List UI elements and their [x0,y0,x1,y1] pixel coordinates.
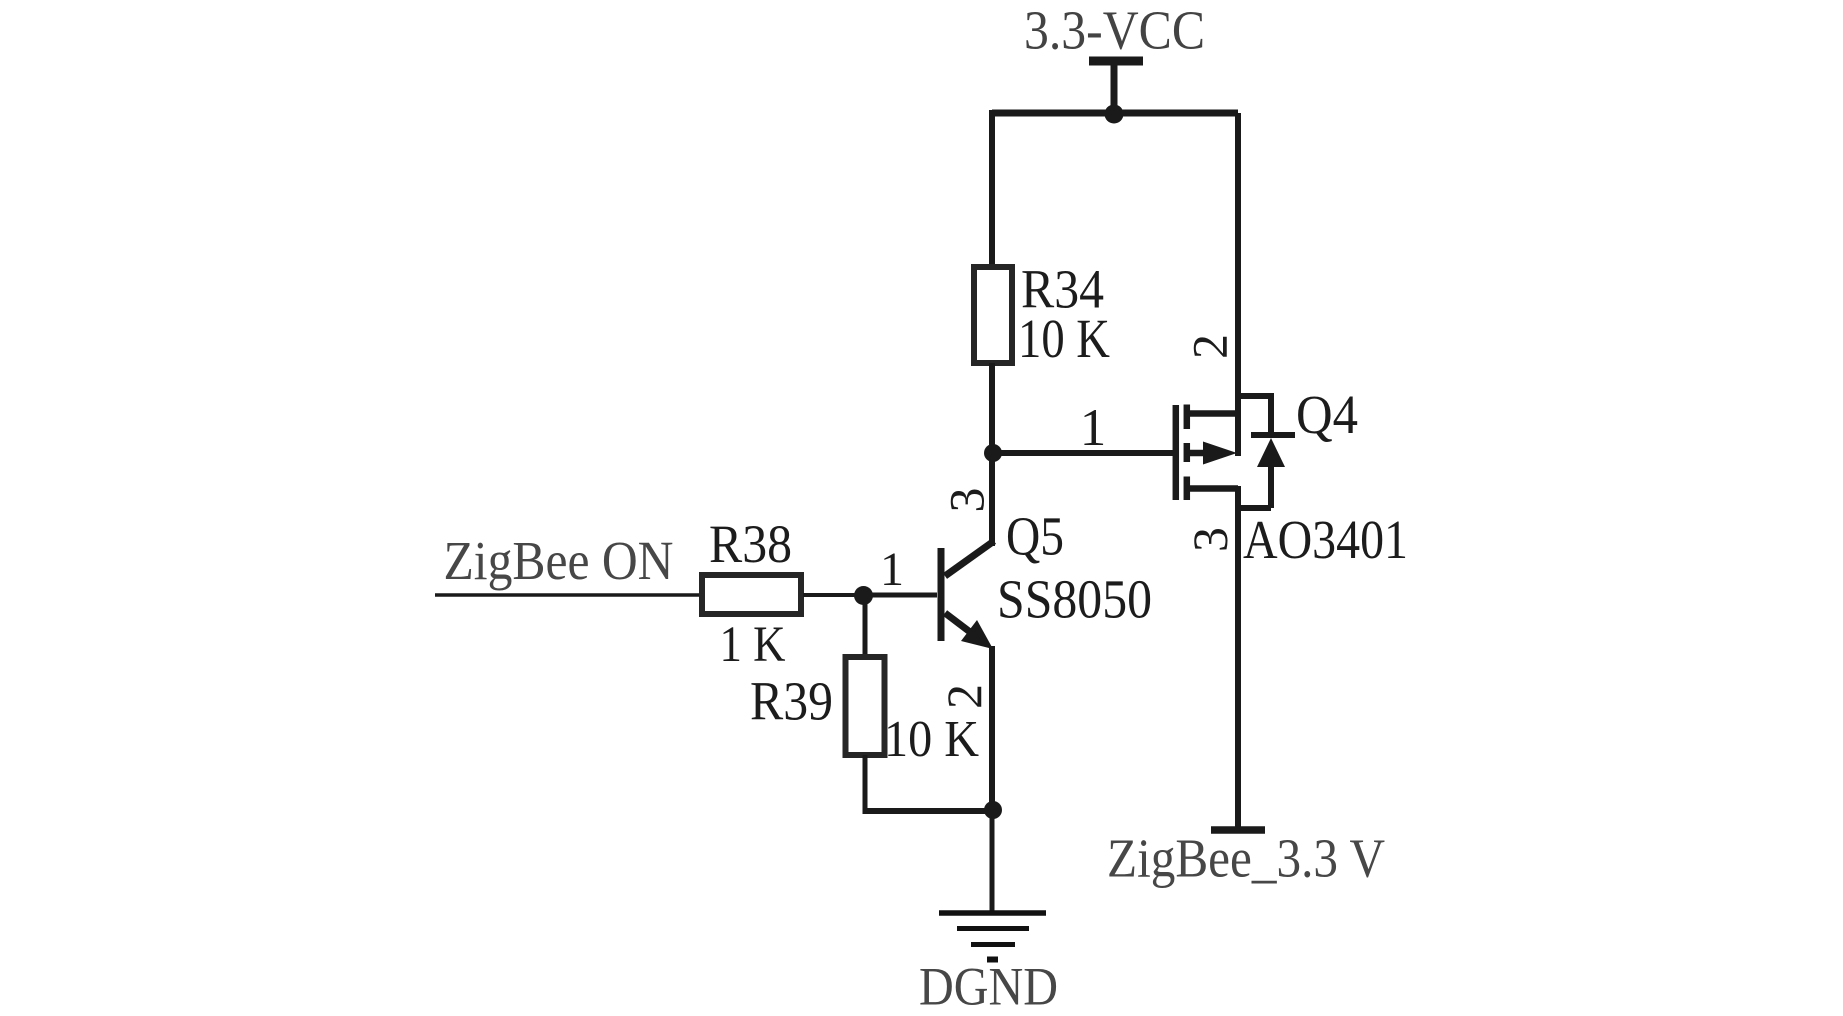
wire base node to Q5 base [862,593,937,598]
svg-text:3.3-VCC: 3.3-VCC [1024,0,1205,61]
wire Q5 collector vertical [989,450,995,546]
svg-text:3: 3 [939,488,995,513]
wire left vertical to R34 [989,110,995,266]
wire top rail [992,110,1238,117]
svg-text:R38: R38 [709,514,792,574]
svg-text:Q4: Q4 [1296,384,1358,445]
svg-text:3: 3 [1182,527,1238,552]
svg-text:ZigBee ON: ZigBee ON [444,530,674,591]
wire R39 bottom [863,755,868,813]
junction emitter node [984,801,1002,819]
wire bottom horizontal to emitter node [863,808,997,814]
wire Q4 source vertical (pin 3 side) [1235,486,1241,830]
wire gate node to Q4 gate [990,450,1173,456]
power symbol 3.3-VCC [1089,61,1143,113]
wire emitter node to ground [990,810,995,913]
wire ZigBee ON input [435,593,701,597]
wire base node down to R39 [863,592,868,656]
wire Q4 drain vertical (pin 2 side) [1235,113,1241,456]
transistor Q4 (PMOS AO3401) [1176,405,1238,501]
svg-text:1: 1 [1080,399,1107,457]
wire Q5 emitter vertical [989,646,995,810]
svg-text:AO3401: AO3401 [1243,509,1408,570]
resistor R38 [702,575,801,614]
svg-text:Q5: Q5 [1006,506,1064,567]
svg-text:1: 1 [880,543,904,596]
ground ZigBee_3.3 V [1211,826,1265,834]
svg-text:10 K: 10 K [1018,308,1110,369]
svg-text:2: 2 [936,684,992,709]
svg-text:DGND: DGND [919,957,1058,1016]
junction gate node [984,444,1002,462]
svg-text:ZigBee_3.3 V: ZigBee_3.3 V [1107,828,1385,889]
wire R34 to gate node [989,363,995,456]
transistor Q5 (NPN SS8050) [938,541,995,649]
junction base node [854,586,873,605]
junction VCC node [1105,105,1124,124]
Q4 arrow [1203,442,1237,465]
body diode of Q4 [1238,393,1295,508]
svg-text:R39: R39 [750,671,833,732]
ground DGND [939,913,1046,960]
svg-text:2: 2 [1182,334,1238,359]
resistor R39 [846,657,885,755]
svg-text:1 K: 1 K [720,617,786,673]
svg-text:SS8050: SS8050 [997,569,1152,630]
resistor R34 [974,267,1012,363]
svg-text:10 K: 10 K [884,711,979,768]
wire R38 to base node [803,593,868,597]
